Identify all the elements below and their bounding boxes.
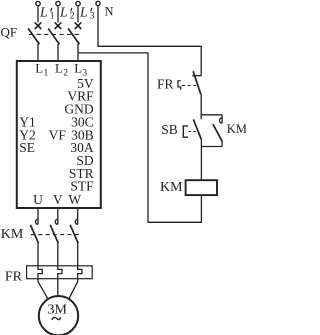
FR actuator dashed link (182, 85, 196, 87)
thermal relay FR body (27, 266, 93, 279)
wire control loop: pole3 tap, left riser, bottom rail, coil bottom (78, 53, 201, 222)
svg-text:L: L (55, 61, 63, 76)
terminal L3' (76, 1, 80, 5)
coil KM (186, 180, 217, 195)
pushbutton SB operator (183, 126, 188, 137)
terminal L1' (36, 1, 40, 5)
pin label L1 (35, 61, 48, 79)
svg-text:2: 2 (63, 68, 68, 78)
SB operator dashed link (188, 131, 197, 133)
contactor KM pole 1 blade (30, 225, 38, 243)
wire FR contact to SB (200, 94, 202, 119)
wire L3' to QF (77, 6, 79, 23)
wire N to control rail (98, 6, 201, 76)
breaker QF pole 1 contact X (35, 22, 42, 29)
svg-text:KM: KM (160, 180, 183, 195)
wire L1' to QF (37, 6, 39, 23)
svg-text:N: N (105, 4, 114, 18)
svg-text:3M: 3M (47, 302, 67, 317)
wire box V to KM contact (57, 208, 59, 224)
contactor KM pole 2 blade (50, 225, 58, 243)
FR heater element phase U (38, 266, 42, 279)
label L1' (39, 5, 55, 22)
contactor KM pole 3 fixed contact arc (75, 219, 78, 224)
terminal N (96, 1, 100, 5)
KM aux contact lower wire (221, 142, 223, 147)
contactor KM pole 3 blade (70, 225, 78, 243)
wire FR to motor (right) (69, 279, 78, 299)
svg-text:KM: KM (227, 122, 246, 136)
svg-text:1: 1 (44, 68, 49, 78)
breaker QF pole 1 blade (28, 29, 39, 45)
svg-text:W: W (68, 192, 81, 207)
wire L2' to QF (57, 6, 59, 23)
wire branch top (to KM aux) (201, 114, 222, 116)
wire KM pole1 to FR (37, 243, 39, 266)
svg-text:SE: SE (19, 140, 35, 155)
wire FR to motor (left) (38, 279, 48, 299)
inverter unit VF (box) (17, 61, 101, 208)
wire QF pole2 to box L2 (57, 44, 59, 61)
svg-text:L: L (39, 5, 48, 20)
svg-text:FR: FR (5, 269, 23, 284)
svg-text:2: 2 (70, 12, 75, 22)
breaker QF pole 3 contact X (75, 22, 82, 29)
breaker QF pole 3 blade (68, 29, 79, 45)
breaker QF pole 2 contact X (55, 22, 62, 29)
svg-text:SB: SB (161, 122, 178, 137)
motor AC tilde (52, 317, 61, 320)
svg-text:L: L (35, 61, 43, 76)
wire KM pole3 to FR (77, 243, 79, 266)
pin label L3 (74, 61, 87, 79)
terminal L2' (56, 1, 60, 5)
wire branch bottom (201, 146, 222, 148)
thermal relay FR contact blade (193, 71, 201, 94)
breaker QF mechanical link (dashed) (29, 33, 82, 35)
wire QF pole3 to box L3 (77, 44, 79, 61)
KM aux contact fixed arc (220, 118, 223, 123)
label L2' (59, 5, 75, 22)
pushbutton SB blade (193, 119, 201, 139)
wire SB to coil (200, 140, 202, 181)
wire KM pole2 to FR (57, 243, 59, 266)
FR heater element phase W (78, 266, 82, 279)
svg-text:3: 3 (90, 12, 95, 22)
KM aux contact upper wire (221, 115, 223, 123)
pin label L2 (55, 61, 68, 79)
wire box U to KM contact (37, 208, 39, 224)
KM aux contact blade (213, 124, 223, 142)
wire FR to motor (middle) (57, 279, 59, 297)
prime mark of L3' (91, 8, 92, 12)
thermal relay FR contact crossbar (192, 75, 201, 77)
svg-text:V: V (53, 192, 63, 207)
svg-text:L: L (74, 61, 82, 76)
FR actuator symbol (178, 81, 181, 90)
motor 3M (39, 296, 78, 335)
FR heater element phase V (58, 266, 62, 279)
svg-text:1: 1 (50, 12, 55, 22)
svg-text:U: U (33, 192, 43, 207)
svg-text:KM: KM (1, 227, 24, 242)
wire box W to KM contact (77, 208, 79, 224)
breaker QF pole 2 blade (48, 29, 59, 45)
contactor KM pole 1 fixed contact arc (36, 219, 39, 224)
label L3' (79, 5, 95, 22)
svg-text:L: L (79, 5, 88, 20)
wire QF pole1 to box L1 (37, 44, 39, 61)
contactor KM pole 2 fixed contact arc (55, 219, 57, 224)
svg-text:L: L (59, 5, 68, 20)
prime mark of L1' (51, 8, 52, 12)
svg-text:FR: FR (157, 76, 174, 91)
contactor KM mechanical link (dashed) (31, 234, 82, 236)
svg-text:QF: QF (1, 24, 18, 39)
prime mark of L2' (71, 8, 72, 12)
svg-text:VF: VF (49, 127, 67, 142)
